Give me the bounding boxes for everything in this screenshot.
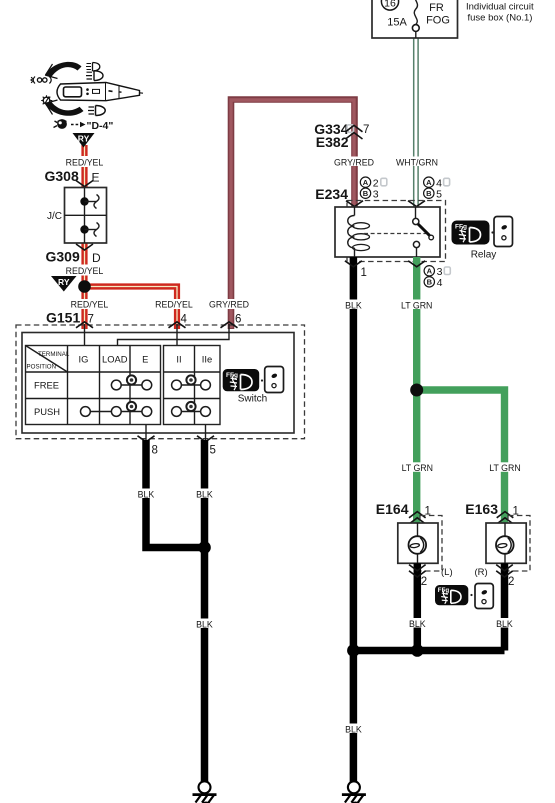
chevron pin 5 — [197, 436, 214, 442]
svg-text:RED/YEL: RED/YEL — [155, 300, 193, 310]
wire E column to pin 8 — [145, 425, 147, 441]
svg-text:fuse box (No.1): fuse box (No.1) — [468, 13, 533, 24]
ground (right) — [342, 781, 366, 803]
relay icon FFg — [452, 221, 490, 245]
J/C joint 1 — [80, 195, 99, 209]
chevron into relay (WHT/GRN) — [408, 201, 425, 207]
chevrons E163 pin 2 — [496, 565, 513, 577]
svg-text:6: 6 — [235, 314, 241, 326]
svg-text:IIe: IIe — [202, 354, 212, 365]
svg-text:E382: E382 — [316, 134, 349, 150]
junction dot (bus at relay wire) — [347, 644, 360, 657]
fog lamp icon FFg — [435, 585, 468, 605]
label RED/YEL (G151 pin 4) — [152, 299, 196, 310]
svg-text:2: 2 — [421, 576, 427, 588]
svg-text:E: E — [92, 171, 100, 185]
fuse box (Individual circuit fuse box No.1) — [372, 0, 458, 38]
wire BLK (E163 pin 2) — [501, 563, 509, 650]
pin A3 — [424, 266, 450, 278]
svg-text:LOAD: LOAD — [102, 354, 128, 365]
parking light (sun) icon — [41, 95, 52, 106]
svg-text:A: A — [427, 267, 433, 276]
svg-text:BLK: BLK — [496, 619, 513, 629]
pin B5 — [424, 188, 443, 200]
svg-text:"D-4": "D-4" — [87, 120, 114, 132]
connector G309 pin D — [46, 244, 102, 265]
G334 gray cavity mark — [347, 125, 354, 133]
svg-text:B: B — [427, 278, 433, 287]
svg-text:GRY/RED: GRY/RED — [209, 300, 249, 310]
svg-text:WHT/GRN: WHT/GRN — [396, 157, 438, 167]
FREE row II-IIe contact — [172, 380, 211, 390]
label LT GRN (E164) — [401, 462, 435, 473]
label BLK (relay pin1 wire) — [343, 300, 363, 311]
wire IIe column to pin 5 — [205, 425, 207, 441]
wire pin7 to IG column — [84, 324, 86, 346]
label RED/YEL (G151 pin 7) — [67, 299, 111, 310]
svg-text:II: II — [176, 354, 181, 365]
wire RED/YEL (branch to G151 pin 4) — [85, 287, 178, 330]
chevron pin 6 — [221, 322, 238, 328]
wire LT GRN (relay to E164) — [413, 257, 420, 523]
svg-text:G309: G309 — [46, 249, 80, 265]
chevron pin 7 — [76, 322, 93, 328]
svg-text:POSITION: POSITION — [27, 364, 57, 371]
E164 dashed outline — [420, 516, 442, 572]
wire pin4 to II column — [176, 324, 178, 346]
wire BLK (pin 8 down) — [146, 440, 205, 548]
label LT GRN (E163) — [488, 462, 522, 473]
headlamp icon (lower) — [88, 106, 105, 116]
svg-text:A: A — [363, 178, 369, 187]
ground (left) — [193, 781, 217, 803]
switch inner solid box — [22, 333, 294, 434]
junction connector J/C box — [47, 188, 107, 244]
wire RED/YEL (J/C to G151 pin 7) — [81, 243, 87, 329]
PUSH row II-IIe contact — [172, 407, 211, 417]
wire pin6 to LOAD column — [118, 324, 230, 346]
svg-text:BLK: BLK — [196, 489, 213, 499]
caption: Individual circuit fuse box (No.1) — [466, 1, 534, 23]
svg-text:Relay: Relay — [471, 250, 497, 261]
relay dashed outline — [347, 201, 446, 262]
relay connector cavity box — [494, 217, 513, 247]
switch connector cavity box — [265, 367, 284, 393]
table header diagonal TERMINAL/POSITION — [26, 346, 70, 373]
rotary position marks — [31, 77, 51, 84]
svg-text:G151: G151 — [46, 310, 80, 326]
svg-text:BLK: BLK — [345, 724, 362, 734]
pin B3 — [360, 188, 379, 200]
PUSH row lamp (II-IIe) — [186, 402, 195, 411]
junction dot (bus at E164 wire) — [411, 644, 424, 657]
svg-text:RED/YEL: RED/YEL — [71, 300, 109, 310]
E164 bulb — [409, 523, 427, 563]
label RED/YEL (above G308) — [64, 156, 105, 167]
label BLK (left ground wire) — [195, 619, 215, 630]
eye icon and D-4 reference — [54, 119, 114, 132]
svg-text:E234: E234 — [315, 186, 348, 202]
svg-text:(R): (R) — [475, 567, 488, 578]
pin B4 — [424, 277, 443, 289]
svg-text:BLK: BLK — [138, 489, 155, 499]
svg-text:LT GRN: LT GRN — [402, 463, 433, 473]
wire GRY/RED (top run to relay and to G151 pin 6) — [231, 100, 355, 330]
svg-text:B: B — [426, 189, 432, 198]
connector G334/E382 labels — [314, 121, 348, 150]
FREE row lamp (II-IIe) — [186, 375, 195, 384]
svg-text:(L): (L) — [441, 567, 453, 578]
E163 bulb — [496, 523, 514, 563]
svg-text:5: 5 — [436, 188, 442, 200]
relay mechanical link (dashed) — [364, 233, 426, 235]
svg-text:A: A — [426, 178, 432, 187]
E163 fog lamp box — [486, 523, 526, 563]
svg-text:5: 5 — [210, 445, 216, 457]
PUSH row IG-LOAD-E contact — [81, 407, 152, 417]
terminal table right section — [164, 346, 221, 425]
rotate arrow (top) — [45, 62, 82, 79]
svg-text:4: 4 — [437, 277, 443, 289]
svg-text:FR: FR — [429, 2, 444, 14]
wire BLK (relay pin 1 to ground) — [350, 257, 358, 782]
switch assembly dashed outline — [16, 325, 305, 439]
svg-text:Switch: Switch — [238, 393, 267, 404]
relay coil — [348, 207, 370, 257]
label LT GRN (below relay) — [400, 300, 434, 311]
svg-text:RY: RY — [58, 277, 70, 287]
E164 fog lamp box — [398, 523, 438, 563]
wire BLK (ground bus) — [353, 647, 504, 655]
svg-text:16: 16 — [384, 0, 396, 10]
FREE row lamp (LOAD-E) — [127, 375, 136, 384]
junction dot (RED/YEL branch) — [78, 280, 91, 293]
label GRY/RED (G151 pin 6) — [207, 299, 251, 310]
svg-text:TERMINAL: TERMINAL — [38, 351, 70, 358]
svg-text:G308: G308 — [45, 168, 79, 184]
connector marker RY (top triangle) — [73, 133, 95, 148]
svg-text:RY: RY — [78, 134, 90, 144]
svg-text:LT GRN: LT GRN — [489, 463, 520, 473]
chevrons G334/E382 — [346, 125, 363, 139]
svg-text:D: D — [92, 251, 101, 265]
svg-text:PUSH: PUSH — [34, 406, 60, 417]
svg-text:7: 7 — [363, 124, 369, 136]
svg-text:FOG: FOG — [426, 15, 450, 27]
svg-text:LT GRN: LT GRN — [401, 300, 432, 310]
connector G308 pin E — [45, 168, 100, 187]
chevron into relay (GRY/RED) — [346, 201, 363, 207]
J/C joint 2 — [80, 223, 99, 237]
fuse 16 15A FR FOG — [381, 0, 450, 31]
wire RED/YEL (switch stalk to J/C) — [81, 145, 87, 188]
svg-text:FFg: FFg — [455, 224, 467, 231]
switch icon separator dot — [261, 379, 263, 381]
svg-text:E163: E163 — [465, 501, 498, 517]
headlamp icons (upper) — [86, 63, 103, 81]
chevron pin 4 — [169, 322, 186, 328]
label BLK (pin 8 wire) — [136, 489, 156, 500]
fog icon separator dot — [470, 594, 472, 596]
label BLK (right ground wire) — [343, 724, 363, 735]
svg-text:E: E — [142, 354, 148, 365]
svg-text:8: 8 — [152, 445, 158, 457]
svg-text:BLK: BLK — [196, 619, 213, 629]
chevrons E164 pin 1 — [409, 512, 426, 524]
PUSH row lamp (LOAD-E) — [127, 402, 136, 411]
wire WHT/GRN (fuse box to relay) — [414, 36, 418, 208]
combination switch stalk illustration — [57, 83, 143, 101]
junction dot (LT GRN branch) — [410, 384, 423, 397]
connector marker RY (lower triangle) — [51, 276, 77, 292]
svg-text:RED/YEL: RED/YEL — [66, 266, 104, 276]
svg-text:Individual circuit: Individual circuit — [466, 1, 534, 12]
label GRY/RED (relay) — [334, 157, 374, 168]
relay solid box — [335, 207, 440, 257]
svg-text:3: 3 — [373, 188, 379, 200]
svg-text:BLK: BLK — [345, 300, 362, 310]
svg-text:J/C: J/C — [47, 211, 62, 222]
label BLK (E164 wire) — [407, 618, 427, 629]
svg-text:4: 4 — [181, 314, 188, 326]
relay contact — [413, 207, 434, 257]
svg-text:B: B — [363, 189, 369, 198]
svg-text:15A: 15A — [387, 17, 407, 29]
chevron pin 8 — [138, 436, 155, 442]
svg-text:RED/YEL: RED/YEL — [66, 157, 104, 167]
chevrons E164 pin 2 — [409, 565, 426, 577]
fog connector cavity box — [475, 584, 493, 609]
svg-text:1: 1 — [361, 267, 367, 279]
label BLK (E163 wire) — [495, 618, 515, 629]
pin A2 — [360, 177, 387, 189]
relay icon separator dot — [491, 231, 493, 233]
label BLK (pin 5 wire) — [195, 489, 215, 500]
wire BLK (pin 5 down to ground) — [201, 440, 209, 551]
chevron relay lower (LT GRN) — [408, 261, 425, 267]
terminal table left section — [26, 346, 161, 425]
fog switch icon FFg — [223, 369, 260, 391]
label RED/YEL (below G309) — [64, 265, 105, 276]
svg-text:IG: IG — [79, 354, 89, 365]
svg-text:2: 2 — [508, 576, 514, 588]
chevrons E163 pin 1 — [497, 512, 514, 524]
svg-text:FREE: FREE — [34, 380, 59, 391]
rotate arrow (bottom) — [45, 97, 84, 116]
svg-text:E164: E164 — [376, 501, 409, 517]
label WHT/GRN (relay) — [396, 157, 438, 168]
wire BLK (E164 pin 2) — [414, 563, 422, 650]
pin A4 — [424, 177, 450, 189]
svg-text:BLK: BLK — [409, 619, 426, 629]
FREE row LOAD-E contact — [111, 380, 151, 390]
E163 dashed outline — [508, 516, 530, 572]
junction dot (BLK merge) — [198, 541, 211, 554]
chevron relay pin 1 — [345, 261, 362, 267]
wire LT GRN (branch to E163) — [417, 390, 505, 523]
svg-text:GRY/RED: GRY/RED — [334, 157, 374, 167]
